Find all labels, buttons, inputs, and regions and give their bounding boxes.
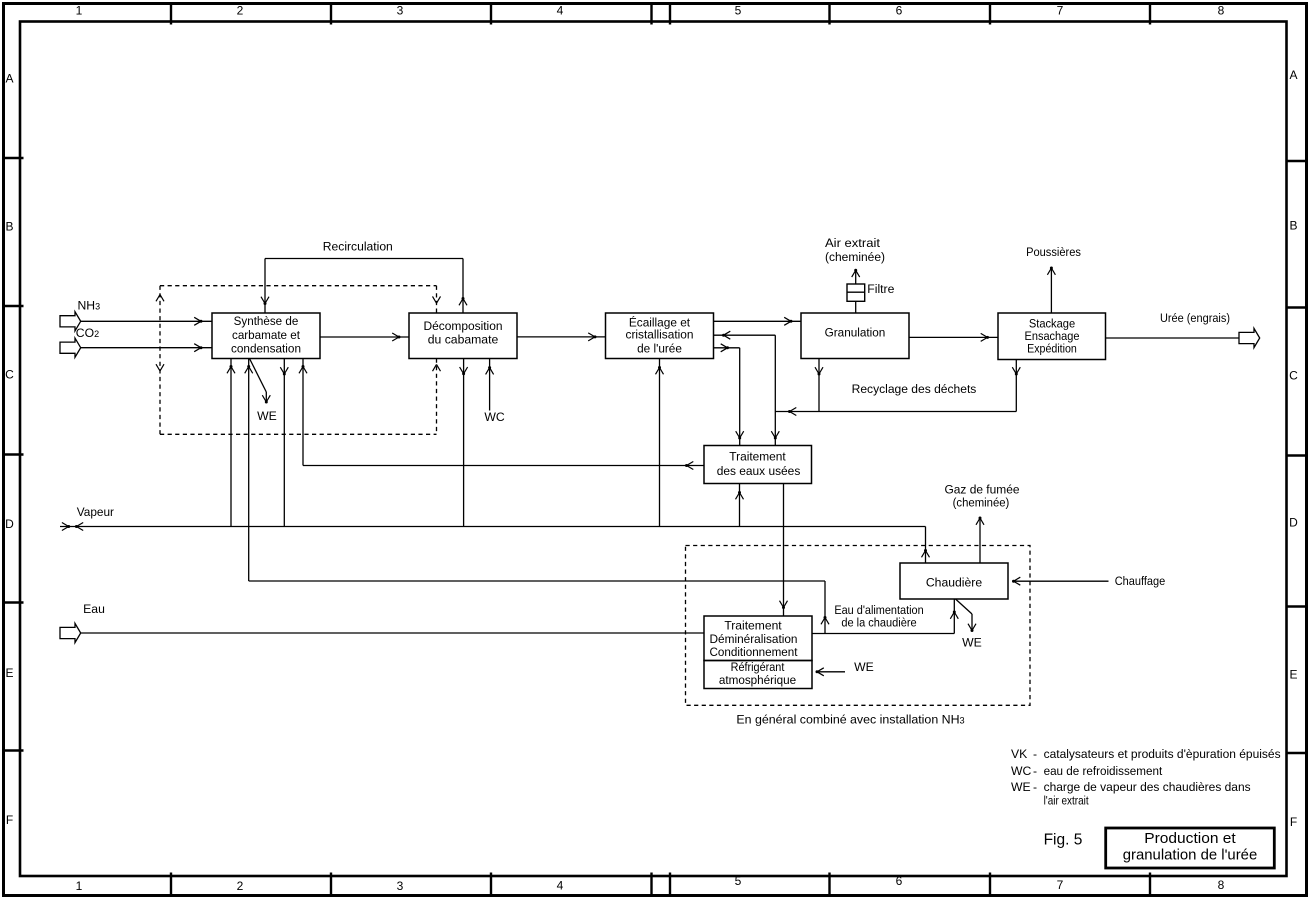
box Traitement Demineralisation Conditionnement [704, 616, 812, 661]
arrow up on dashed edge into Decomposition bottom [433, 364, 441, 371]
svg-text:B: B [1289, 219, 1297, 233]
svg-text:Recyclage des déchets: Recyclage des déchets [852, 382, 977, 396]
svg-text:atmosphérique: atmosphérique [719, 673, 797, 687]
svg-text:de la chaudière: de la chaudière [841, 616, 916, 630]
wire recycled water up into Synthese bottom at x303 [302, 359, 304, 466]
wire WE outlet diagonal from Synthese bottom [250, 359, 267, 403]
arrow into Decomposition [392, 333, 400, 341]
right border tick 1 [1287, 160, 1308, 162]
svg-text:En général combiné avec instal: En général combiné avec installation NH3 [736, 713, 964, 727]
label Recirculation [323, 240, 393, 254]
arrow down into Demineralisation top [780, 601, 788, 609]
Eau feed block arrow [60, 623, 81, 642]
svg-text:E: E [5, 666, 13, 680]
top border tick 6 [828, 4, 830, 25]
svg-text:NH3: NH3 [78, 299, 101, 313]
svg-text:cristallisation: cristallisation [626, 327, 694, 341]
arrow into Stackage [981, 333, 989, 341]
top zone label 1 [76, 4, 83, 18]
top border tick 7 [989, 4, 991, 25]
box Ecaillage et cristallisation de l'uree [606, 313, 714, 359]
arrow left into Ecaillage right edge [722, 331, 730, 339]
arrow into Granulation [784, 317, 792, 325]
svg-text:F: F [6, 813, 13, 827]
svg-text:des eaux usées: des eaux usées [717, 464, 801, 478]
wire Granulation top to filtre [855, 301, 857, 313]
legend line VK [1011, 747, 1281, 761]
legend line l'air extrait [1044, 794, 1089, 808]
svg-text:7: 7 [1057, 4, 1064, 18]
wire vapeur riser to Synthese bottom at x231 [230, 359, 232, 527]
svg-text:WE: WE [1011, 780, 1031, 794]
top zone label 6 [896, 4, 903, 18]
label Chauffage [1115, 574, 1166, 588]
bottom border tick 4 [650, 873, 652, 896]
bottom zone label 6 [896, 874, 903, 888]
svg-text:-: - [1033, 780, 1037, 794]
left row label B [5, 220, 13, 234]
svg-text:Conditionnement: Conditionnement [710, 645, 799, 659]
arrow up gaz de fumee [976, 517, 984, 525]
svg-text:WE: WE [962, 636, 982, 650]
box Chaudiere [900, 563, 1008, 599]
dashed boundary top edge [160, 285, 437, 287]
wire recycle horizontal y411.5 [775, 411, 1016, 413]
wire Granulation bottom outlet [818, 359, 820, 412]
wire Granulation to Stackage [909, 336, 998, 338]
arrow up on dashed left edge [156, 295, 164, 302]
arrow pair at vapeur offpage connector [62, 523, 83, 531]
svg-text:E: E [1289, 668, 1297, 682]
arrow up on chaudiere steam riser [922, 549, 930, 557]
svg-text:Traitement: Traitement [729, 450, 786, 464]
arrow down on dashed edge into Decomposition top [433, 296, 441, 303]
filtre symbol [847, 284, 865, 301]
top border tick 1 [170, 4, 172, 25]
wire recycle vertical x775 [774, 335, 776, 445]
dashed boundary bottom edge [160, 433, 437, 435]
svg-text:WC: WC [484, 410, 505, 424]
arrow left into Chaudiere right [1012, 577, 1020, 585]
right row label C [1289, 369, 1298, 383]
svg-text:8: 8 [1218, 4, 1225, 18]
arrow down into Traitement eaux usees top x775 [771, 431, 779, 439]
dashed boundary right edge upper segment into Decomposition top [436, 286, 438, 313]
label Gaz de fumee (cheminee) [945, 483, 1020, 510]
svg-text:6: 6 [896, 4, 903, 18]
label Vapeur [77, 505, 114, 519]
arrow up into Ecaillage bottom [656, 366, 664, 374]
box Granulation [801, 313, 909, 359]
arrow up into Synthese bottom x249 [245, 365, 253, 373]
svg-text:catalysateurs et produits d'èp: catalysateurs et produits d'èpuration ép… [1044, 747, 1281, 761]
right row label B [1289, 219, 1297, 233]
svg-text:Déminéralisation: Déminéralisation [710, 632, 798, 646]
arrow down from Granulation bottom [815, 367, 823, 375]
wire WE outlet diagonal from Chaudiere bottom [956, 599, 973, 631]
svg-text:Décomposition: Décomposition [424, 319, 503, 333]
bottom zone label 8 [1218, 878, 1225, 892]
svg-text:eau de refroidissement: eau de refroidissement [1044, 764, 1163, 778]
bottom border tick 2 [330, 873, 332, 896]
wire down from Synthese bottom to vapeur header at x284 [283, 359, 285, 527]
svg-text:Chauffage: Chauffage [1115, 574, 1166, 588]
svg-text:(cheminée): (cheminée) [825, 250, 885, 264]
svg-text:C: C [5, 368, 14, 382]
svg-text:A: A [1289, 68, 1297, 82]
svg-text:Granulation: Granulation [825, 325, 886, 339]
label Uree (engrais) [1160, 311, 1230, 325]
box Stackage Ensachage Expedition [998, 313, 1106, 360]
arrow down from Decomposition bottom [460, 367, 468, 375]
svg-text:du cabamate: du cabamate [428, 332, 499, 346]
label Eau d'alimentation de la chaudiere [834, 603, 923, 630]
left border tick 5 [4, 749, 24, 751]
svg-text:5: 5 [735, 4, 742, 18]
wire Stackage top to poussieres [1050, 268, 1052, 313]
right border tick 3 [1287, 454, 1308, 456]
svg-text:8: 8 [1218, 878, 1225, 892]
bottom zone label 3 [397, 879, 404, 893]
svg-text:B: B [5, 220, 13, 234]
svg-text:CO2: CO2 [76, 326, 99, 340]
title text [1123, 830, 1258, 863]
wire WE into Refrigerant atmospherique [817, 671, 845, 673]
top border tick 2 [330, 4, 332, 25]
right border tick 4 [1287, 605, 1308, 607]
svg-text:Traitement: Traitement [724, 619, 782, 633]
arrow left from Traitement eaux usees [685, 462, 693, 470]
svg-text:WE: WE [854, 660, 874, 674]
svg-text:Réfrigérant: Réfrigérant [731, 660, 785, 674]
bottom zone label 7 [1057, 878, 1064, 892]
wire riser into Chaudiere bottom [953, 599, 955, 634]
arrow up into Synthese bottom x303 [299, 365, 307, 373]
label Air extrait (cheminee) [825, 236, 885, 264]
svg-text:WC: WC [1011, 764, 1032, 778]
wire chauffage into Chaudiere right [1014, 580, 1109, 582]
svg-text:F: F [1290, 815, 1297, 829]
left border tick 3 [4, 453, 24, 455]
wire recirculation horizontal [265, 258, 463, 260]
label Recyclage des dechets [852, 382, 977, 396]
svg-text:7: 7 [1057, 878, 1064, 892]
wire Ecaillage lower right outlet to Traitement eaux usees [714, 348, 740, 445]
wire recirculation down into Synthese top [264, 259, 266, 314]
right row label A [1289, 68, 1297, 82]
label CO2 [76, 326, 99, 340]
left border tick 1 [4, 157, 24, 159]
bottom border tick 7 [989, 873, 991, 896]
dashed boundary box of boiler unit [686, 546, 1031, 706]
wire vapeur riser into Traitement eaux usees bottom [739, 484, 741, 527]
wire feedwater riser to Synthese bottom at x249 [248, 359, 250, 582]
arrow left on recycle line [788, 408, 796, 416]
top border tick 4 [650, 4, 652, 25]
svg-text:granulation de l'urée: granulation de l'urée [1123, 847, 1258, 864]
svg-text:A: A [5, 72, 13, 86]
left row label F [6, 813, 13, 827]
uree output block arrow [1239, 328, 1260, 347]
arrow NH3 into Synthese [194, 317, 202, 325]
arrow up air extrait [852, 269, 860, 277]
wire feedwater riser x825 [824, 581, 826, 634]
bottom zone label 5 [735, 874, 742, 888]
top zone label 2 [237, 4, 244, 18]
svg-text:VK: VK [1011, 747, 1027, 761]
caption En general combine avec installation NH3 [736, 713, 964, 727]
svg-text:l'air extrait: l'air extrait [1044, 794, 1089, 808]
wire Traitement eaux usees outlet down to Demineralisation [783, 484, 785, 617]
wire feedwater horizontal y581 [249, 580, 825, 582]
top border tick 8 [1149, 4, 1151, 25]
svg-text:Urée (engrais): Urée (engrais) [1160, 311, 1230, 325]
wire gaz de fumee stack [979, 518, 981, 563]
svg-text:Filtre: Filtre [867, 282, 894, 296]
svg-text:charge de vapeur des chaudière: charge de vapeur des chaudières dans [1044, 780, 1251, 794]
svg-text:4: 4 [557, 879, 564, 893]
bottom border tick 1 [170, 873, 172, 896]
left border tick 2 [4, 305, 24, 307]
dashed boundary right edge lower segment from Decomposition bottom [436, 359, 438, 435]
svg-text:Vapeur: Vapeur [77, 505, 114, 519]
svg-text:carbamate et: carbamate et [232, 328, 301, 342]
arrow CO2 into Synthese [194, 344, 202, 352]
arrow right on Ecaillage lower outlet [721, 344, 729, 352]
left row label E [5, 666, 13, 680]
wire vapeur riser into Ecaillage bottom [659, 359, 661, 527]
top zone label 8 [1218, 4, 1225, 18]
bottom border tick 3 [490, 873, 492, 896]
wire Decomposition to Ecaillage [517, 336, 606, 338]
bottom border tick 8 [1149, 873, 1151, 896]
bottom border tick 6 [828, 873, 830, 896]
top border tick 5 [669, 4, 671, 25]
arrow down into Traitement eaux usees top x740 [736, 431, 744, 439]
arrow down WE outlet [262, 395, 270, 403]
wire CO2 feed line [81, 347, 212, 349]
label Fig. 5 [1044, 832, 1083, 849]
wire WC cooling water into Decomposition bottom [489, 359, 491, 411]
wire filtre to air extrait stack [855, 270, 857, 284]
wire recycle return into Ecaillage right edge [714, 334, 776, 336]
svg-text:(cheminée): (cheminée) [953, 496, 1010, 510]
svg-text:D: D [5, 517, 14, 531]
label Eau [83, 602, 105, 616]
label NH3 [78, 299, 101, 313]
svg-text:-: - [1033, 747, 1037, 761]
wire down from Decomposition bottom to vapeur header at x463 [463, 359, 465, 527]
left row label D [5, 517, 14, 531]
dashed boundary left edge [159, 286, 161, 435]
svg-text:1: 1 [76, 879, 83, 893]
svg-text:WE: WE [257, 409, 277, 423]
arrow down into Synthese top [261, 297, 269, 305]
wire eau d'alimentation de la chaudiere [812, 633, 954, 635]
box Decomposition du cabamate [409, 313, 517, 359]
svg-text:Eau: Eau [83, 602, 105, 616]
wire vapeur riser from Chaudiere top [925, 527, 927, 564]
top zone label 5 [735, 4, 742, 18]
svg-text:Production et: Production et [1144, 830, 1236, 847]
wire Ecaillage to Granulation [714, 320, 802, 322]
label Filtre [867, 282, 894, 296]
label WC [484, 410, 505, 424]
NH3 feed block arrow [60, 312, 81, 331]
svg-text:3: 3 [397, 4, 404, 18]
arrow up from Decomposition top [459, 297, 467, 305]
title block box [1106, 828, 1275, 868]
svg-text:2: 2 [237, 4, 244, 18]
svg-text:de l'urée: de l'urée [637, 342, 682, 356]
arrow down chaudiere WE outlet [968, 624, 976, 632]
arrow up on feedwater riser x825 [821, 616, 829, 624]
left border tick 4 [4, 601, 24, 603]
svg-text:1: 1 [76, 4, 83, 18]
svg-text:Recirculation: Recirculation [323, 240, 393, 254]
left row label A [5, 72, 13, 86]
svg-text:Chaudière: Chaudière [926, 576, 982, 590]
arrow left into Refrigerant [816, 668, 824, 676]
arrow down on dashed left edge [156, 364, 164, 371]
bottom border tick 5 [669, 873, 671, 896]
box Refrigerant atmospherique [704, 660, 812, 689]
svg-text:Fig. 5: Fig. 5 [1044, 832, 1083, 849]
label WE at refrigerant [854, 660, 874, 674]
svg-text:Expédition: Expédition [1027, 342, 1077, 356]
svg-text:2: 2 [237, 879, 244, 893]
CO2 feed block arrow [60, 338, 81, 357]
box Traitement des eaux usees [704, 446, 812, 484]
svg-text:C: C [1289, 369, 1298, 383]
top zone label 7 [1057, 4, 1064, 18]
arrow down from Stackage bottom [1012, 367, 1020, 375]
wire Traitement eaux usees left outlet to Synthese riser [303, 465, 704, 467]
label WE under Synthese [257, 409, 277, 423]
label WE under Chaudiere [962, 636, 982, 650]
wire vapeur header horizontal [60, 526, 926, 528]
svg-text:5: 5 [735, 874, 742, 888]
wire NH3 feed line [81, 320, 212, 322]
arrow up into Decomposition bottom WC [486, 366, 494, 374]
arrow down from Synthese bottom x284 [280, 367, 288, 375]
legend line WE [1011, 780, 1251, 794]
svg-text:6: 6 [896, 874, 903, 888]
bottom zone label 4 [557, 879, 564, 893]
arrow into Ecaillage [588, 333, 596, 341]
bottom zone label 2 [237, 879, 244, 893]
svg-text:4: 4 [557, 4, 564, 18]
top border tick 3 [490, 4, 492, 25]
wire Stackage to uree output [1106, 337, 1240, 339]
top zone label 4 [557, 4, 564, 18]
left row label C [5, 368, 14, 382]
wire from Decomposition top up to recirculation [462, 259, 464, 314]
arrow up poussieres [1047, 267, 1055, 275]
svg-text:Poussières: Poussières [1026, 245, 1081, 259]
right border tick 5 [1287, 752, 1308, 754]
svg-text:condensation: condensation [231, 341, 301, 355]
svg-text:D: D [1289, 516, 1298, 530]
right row label D [1289, 516, 1298, 530]
label Poussieres [1026, 245, 1081, 259]
top zone label 3 [397, 4, 404, 18]
svg-text:3: 3 [397, 879, 404, 893]
arrow up into Synthese bottom x231 [227, 365, 235, 373]
legend line WC [1011, 764, 1163, 778]
bottom zone label 1 [76, 879, 83, 893]
right row label F [1290, 815, 1297, 829]
arrow up into Chaudiere bottom [950, 611, 958, 619]
right row label E [1289, 668, 1297, 682]
svg-text:-: - [1033, 764, 1037, 778]
wire Synthese to Decomposition [320, 336, 409, 338]
svg-text:Synthèse de: Synthèse de [234, 314, 299, 328]
svg-text:Gaz de fumée: Gaz de fumée [945, 483, 1020, 497]
svg-text:Air extrait: Air extrait [825, 236, 881, 250]
arrow up into Traitement eaux usees bottom [736, 491, 744, 499]
wire eau feed line [81, 632, 704, 634]
box Synthese de carbamate et condensation [212, 313, 320, 359]
right border tick 2 [1287, 306, 1308, 308]
wire Stackage bottom outlet [1015, 360, 1017, 412]
